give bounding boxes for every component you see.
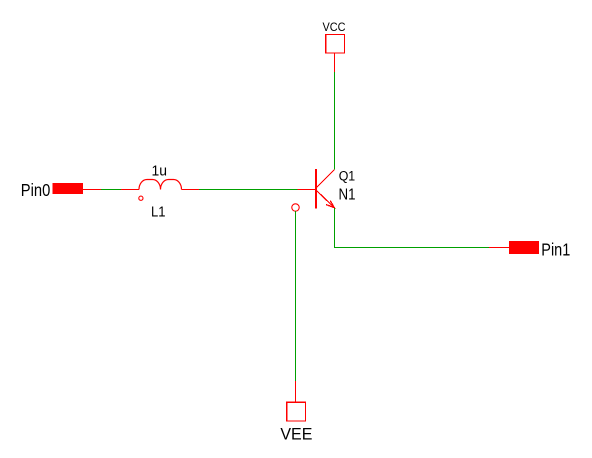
wire Q1 emitter down (green net) [334, 208, 336, 248]
transistor Q1 [298, 169, 356, 209]
svg-text:Q1: Q1 [339, 169, 356, 184]
wire emitter corner to Pin1 (green net) [334, 247, 489, 249]
node on base net (open pin circle) [292, 204, 299, 211]
wire VCC to Q1 collector (green net) [334, 72, 336, 169]
port Pin0 [21, 180, 83, 200]
svg-text:L1: L1 [151, 205, 166, 221]
wire to Pin1 (red) [489, 247, 509, 249]
wire Pin0 to L1 (green net) [101, 189, 121, 191]
svg-text:VCC: VCC [323, 22, 346, 34]
port Pin1 [509, 240, 571, 260]
svg-text:VEE: VEE [280, 425, 312, 443]
wire Pin0 to L1 (red) [83, 189, 101, 191]
svg-text:N1: N1 [339, 187, 356, 204]
port VEE [280, 402, 312, 443]
wire VCC stub (red) [334, 54, 336, 72]
svg-text:Pin1: Pin1 [541, 240, 570, 260]
wire L1 to Q1 base (green net) [199, 189, 298, 191]
port VCC [323, 22, 346, 53]
svg-text:Pin0: Pin0 [21, 180, 51, 200]
wire node to VEE (green net) [295, 211, 297, 381]
svg-text:1u: 1u [152, 164, 168, 180]
inductor L1 [121, 164, 199, 221]
wire VEE stub (red) [295, 381, 297, 402]
